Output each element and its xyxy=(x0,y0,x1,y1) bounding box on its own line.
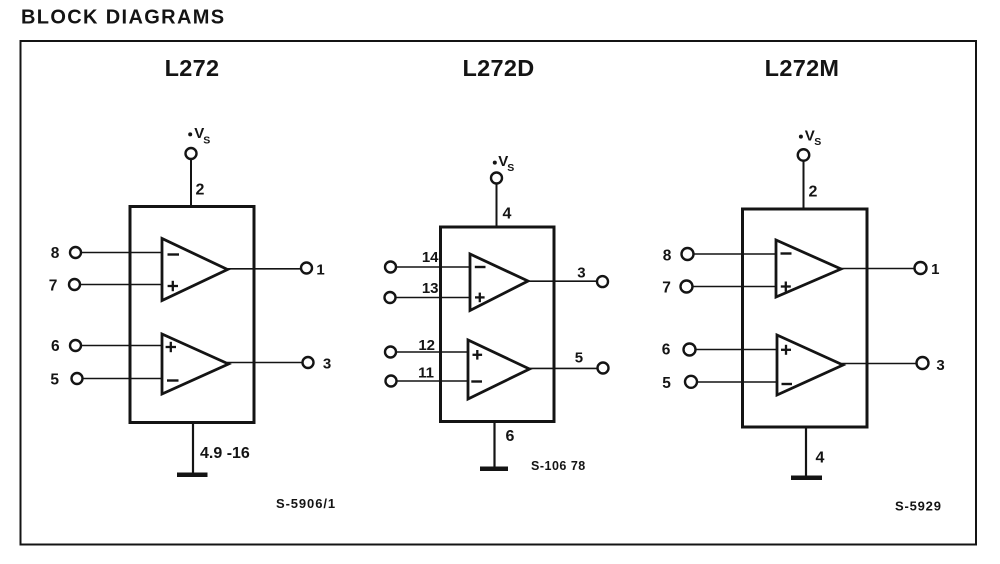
IC body L272 xyxy=(130,207,254,423)
wire pin11 to B2 inverting xyxy=(397,380,469,382)
pin 7 terminal xyxy=(69,279,80,290)
wire C2 output to pin3 xyxy=(842,363,917,365)
pin 11 terminal xyxy=(386,376,397,387)
svg-text:8: 8 xyxy=(663,248,672,265)
op-amp A2 xyxy=(162,334,229,394)
pin 3 terminal xyxy=(303,357,314,368)
svg-text:13: 13 xyxy=(422,280,439,297)
svg-text:4.9 -16: 4.9 -16 xyxy=(200,445,250,462)
pin 6 terminal xyxy=(70,340,81,351)
wire supply to IC top xyxy=(190,159,192,207)
svg-text:5: 5 xyxy=(50,372,59,389)
wire B2 output to pin5 xyxy=(528,367,598,369)
terminal +Vs circle xyxy=(798,149,810,161)
B1 inverting input mark - xyxy=(475,266,486,268)
svg-text:5: 5 xyxy=(662,375,671,392)
svg-text:7: 7 xyxy=(49,278,58,295)
svg-text:6: 6 xyxy=(51,338,60,355)
svg-text:S: S xyxy=(507,162,514,174)
svg-text:11: 11 xyxy=(418,365,434,382)
A2 non-inverting input mark + xyxy=(166,346,176,348)
pin 6 terminal xyxy=(684,344,696,356)
svg-text:14: 14 xyxy=(422,249,439,266)
wire A2 output to pin3 xyxy=(227,362,303,364)
pin 3 terminal xyxy=(917,357,929,369)
pin 5 terminal xyxy=(685,376,697,388)
svg-text:S: S xyxy=(203,135,210,147)
A1 non-inverting input mark + xyxy=(168,285,178,287)
ground symbol xyxy=(791,476,822,481)
op-amp A1 xyxy=(162,239,228,301)
pin 1 terminal xyxy=(301,263,312,274)
wire IC bottom to ground xyxy=(192,423,194,474)
wire pin5 to A2 inverting xyxy=(83,378,163,380)
svg-text:L272: L272 xyxy=(165,55,220,81)
terminal +Vs circle xyxy=(186,148,197,159)
C2 inverting input mark - xyxy=(782,383,793,385)
svg-text:7: 7 xyxy=(662,280,671,297)
C2 non-inverting input mark + xyxy=(781,349,791,351)
svg-text:3: 3 xyxy=(577,264,585,281)
svg-text:1: 1 xyxy=(931,261,939,278)
node +Vs (U2 supply) xyxy=(493,161,497,165)
svg-text:S-106 78: S-106 78 xyxy=(531,459,586,473)
wire C1 output to pin1 xyxy=(840,268,915,270)
pin 5 terminal xyxy=(72,373,83,384)
pin 13 terminal xyxy=(385,292,396,303)
svg-text:6: 6 xyxy=(662,342,671,359)
pin 8 terminal xyxy=(682,248,694,260)
pin 14 terminal xyxy=(385,262,396,273)
B2 non-inverting input mark + xyxy=(473,354,483,356)
wire pin12 to B2 non-inverting xyxy=(396,351,468,353)
pin 7 terminal xyxy=(681,281,693,293)
wire IC bottom to ground xyxy=(805,427,807,476)
wire B1 output to pin3 xyxy=(527,280,598,282)
wire supply to IC top xyxy=(803,161,805,210)
B2 inverting input mark - xyxy=(471,380,482,382)
op-amp C2 xyxy=(777,335,843,395)
svg-text:S-5929: S-5929 xyxy=(895,499,942,514)
svg-text:L272M: L272M xyxy=(765,55,840,81)
pin 12 terminal xyxy=(385,347,396,358)
svg-text:3: 3 xyxy=(936,357,944,374)
op-amp B1 xyxy=(470,254,528,311)
op-amp C1 xyxy=(776,240,841,297)
svg-text:5: 5 xyxy=(575,350,583,367)
C1 inverting input mark - xyxy=(781,252,792,254)
wire pin6 to C2 non-inverting xyxy=(696,349,778,351)
wire pin7 to A1 non-inverting xyxy=(80,284,162,286)
svg-text:2: 2 xyxy=(809,184,818,201)
svg-text:3: 3 xyxy=(323,356,331,373)
A2 inverting input mark - xyxy=(167,379,179,381)
ground symbol xyxy=(480,467,508,472)
IC body L272D xyxy=(441,227,555,422)
svg-text:2: 2 xyxy=(196,182,205,199)
pin 8 terminal xyxy=(70,247,81,258)
IC body L272M xyxy=(743,209,868,427)
B1 non-inverting input mark + xyxy=(475,296,485,298)
svg-text:S-5906/1: S-5906/1 xyxy=(276,496,336,511)
svg-text:8: 8 xyxy=(51,245,60,262)
node +Vs (U3 supply) xyxy=(799,135,803,139)
svg-text:S: S xyxy=(814,136,821,148)
svg-text:L272D: L272D xyxy=(462,55,534,81)
C1 non-inverting input mark + xyxy=(781,285,791,287)
wire pin8 to C1 inverting xyxy=(694,253,777,255)
pin 3 terminal xyxy=(597,276,608,287)
pin 1 terminal xyxy=(915,262,927,274)
ground symbol xyxy=(177,473,208,478)
wire pin5 to C2 inverting xyxy=(697,381,777,383)
svg-text:4: 4 xyxy=(816,450,825,467)
svg-text:4: 4 xyxy=(503,206,512,223)
node +Vs (U1 supply) xyxy=(188,132,192,136)
op-amp B2 xyxy=(468,340,530,399)
wire pin6 to A2 non-inverting xyxy=(81,345,162,347)
wire IC bottom to ground xyxy=(493,422,495,468)
A1 inverting input mark - xyxy=(168,253,180,255)
svg-text:1: 1 xyxy=(316,262,324,279)
terminal +Vs circle xyxy=(491,173,502,184)
svg-text:6: 6 xyxy=(506,428,515,445)
wire pin8 to A1 inverting xyxy=(81,252,162,254)
svg-text:BLOCK DIAGRAMS: BLOCK DIAGRAMS xyxy=(21,7,225,29)
wire pin13 to B1 non-inverting xyxy=(396,297,471,299)
pin 5 terminal xyxy=(598,363,609,374)
wire pin14 to B1 inverting xyxy=(396,266,470,268)
wire A1 output to pin1 xyxy=(226,268,301,270)
wire supply to IC top xyxy=(496,184,498,228)
wire pin7 to C1 non-inverting xyxy=(693,286,777,288)
